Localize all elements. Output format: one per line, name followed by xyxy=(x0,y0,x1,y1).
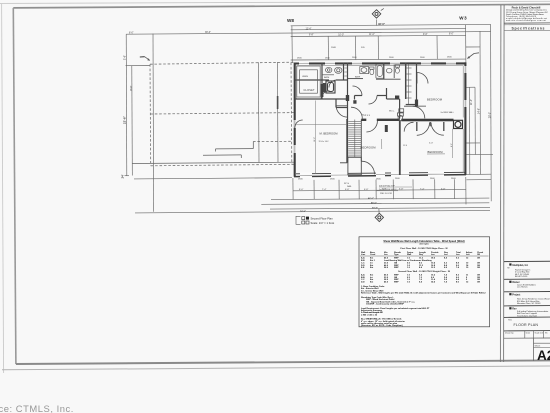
svg-text:2846: 2846 xyxy=(331,47,337,49)
svg-text:W8: W8 xyxy=(287,18,294,23)
svg-text:OK: OK xyxy=(477,282,481,284)
svg-text:6'-8": 6'-8" xyxy=(364,189,369,191)
svg-text:6'-8": 6'-8" xyxy=(441,188,446,190)
svg-text:14'-6": 14'-6" xyxy=(478,108,481,114)
svg-text:Project: Project xyxy=(512,293,520,296)
svg-text:Mountain Plant, SC 29148: Mountain Plant, SC 29148 xyxy=(517,302,541,305)
svg-text:(Structure, IRC as SSTD - Code: (Structure, IRC as SSTD - Code Compliant… xyxy=(361,324,403,327)
svg-text:D-D: D-D xyxy=(361,282,365,284)
svg-text:Drawn by: Drawn by xyxy=(505,333,513,335)
svg-text:24': 24' xyxy=(121,174,125,178)
svg-text:3'-6": 3'-6" xyxy=(123,55,127,60)
svg-text:BEDROOM: BEDROOM xyxy=(428,150,444,154)
svg-text:web site churchilldesignsc com: web site churchilldesignsc com net xyxy=(506,19,546,22)
svg-text:50'-8": 50'-8" xyxy=(372,207,378,209)
svg-text:Second Floor Wall - 10 SDC/TUO: Second Floor Wall - 10 SDC/TUO Weight Fl… xyxy=(398,270,451,273)
svg-text:36" H: 36" H xyxy=(344,183,350,185)
svg-text:9'-6": 9'-6" xyxy=(423,34,428,36)
svg-text:Shear Wall/Brace Wall Length C: Shear Wall/Brace Wall Length Calculation… xyxy=(383,240,464,243)
svg-text:BATH: BATH xyxy=(355,76,361,79)
svg-text:11'-0": 11'-0" xyxy=(369,34,375,36)
svg-text:5'-0": 5'-0" xyxy=(429,143,433,145)
svg-text:First Floor Wall - 10 SDC/TUO: First Floor Wall - 10 SDC/TUO Major Floo… xyxy=(400,247,448,250)
svg-text:74'-8": 74'-8" xyxy=(300,210,306,213)
svg-text:8'-0": 8'-0" xyxy=(129,32,134,34)
svg-text:BEDROOM: BEDROOM xyxy=(427,98,443,102)
svg-text:15'-8 x 14-2: 15'-8 x 14-2 xyxy=(319,141,329,143)
svg-text:11'-0: 11'-0 xyxy=(403,145,407,147)
svg-text:2ND FLOOR: 2ND FLOOR xyxy=(380,193,392,195)
svg-text:38'-6": 38'-6" xyxy=(205,32,211,34)
svg-text:CS-WSP - Continuously sheathed: CS-WSP - Continuously sheathed WSP xyxy=(366,303,404,306)
svg-text:HALL: HALL xyxy=(362,114,371,117)
svg-text:(110 mph): (110 mph) xyxy=(420,244,429,246)
svg-text:843-675-2051: 843-675-2051 xyxy=(515,276,528,278)
svg-text:46'-0": 46'-0" xyxy=(371,202,377,205)
svg-text:6'-8": 6'-8" xyxy=(345,189,350,191)
svg-text:8'-0": 8'-0" xyxy=(299,189,304,191)
svg-text:A2: A2 xyxy=(537,348,550,363)
svg-text:OK: OK xyxy=(477,258,481,260)
svg-text:14'-2": 14'-2" xyxy=(314,137,316,142)
svg-text:2x4 BRG WALL: 2x4 BRG WALL xyxy=(441,111,454,114)
svg-text:W3: W3 xyxy=(459,16,467,21)
svg-text:10'-0": 10'-0" xyxy=(338,34,344,36)
svg-text:46'-0": 46'-0" xyxy=(368,197,374,200)
svg-text:BATH: BATH xyxy=(324,76,330,79)
svg-text:28'-0": 28'-0" xyxy=(489,112,492,118)
svg-text:FLOOR PLAN: FLOOR PLAN xyxy=(514,323,539,327)
svg-text:Scale 1/4: Scale 1/4 xyxy=(535,333,544,335)
svg-text:M. BEDROOM: M. BEDROOM xyxy=(320,132,339,136)
svg-text:46'-0": 46'-0" xyxy=(378,22,386,26)
svg-text:Intelliplan, Inc: Intelliplan, Inc xyxy=(512,264,529,267)
svg-text:OK: OK xyxy=(477,267,481,269)
svg-text:W.I.C.: W.I.C. xyxy=(389,111,395,113)
svg-text:6'-2": 6'-2" xyxy=(451,143,453,147)
svg-text:Second Floor Plan: Second Floor Plan xyxy=(311,217,334,221)
svg-text:12'-4": 12'-4" xyxy=(306,29,312,31)
svg-text:Scale: 1/4" = 1 Foot: Scale: 1/4" = 1 Foot xyxy=(311,221,335,225)
svg-text:LLC Homes: LLC Homes xyxy=(517,287,528,289)
svg-text:ce: CTMLS, Inc.: ce: CTMLS, Inc. xyxy=(0,403,74,413)
svg-text:Reference Table - Wall lengths: Reference Table - Wall lengths per IRC t… xyxy=(361,292,486,295)
svg-text:CLOSET: CLOSET xyxy=(304,89,315,92)
svg-text:Ext: Ext xyxy=(370,281,374,284)
svg-text:22'-6": 22'-6" xyxy=(123,115,127,124)
svg-text:Sh: Sh xyxy=(545,333,547,335)
svg-text:BEDROOM: BEDROOM xyxy=(361,145,377,149)
svg-text:7'-4": 7'-4" xyxy=(420,188,425,190)
svg-text:WSP: WSP xyxy=(394,282,399,284)
svg-text:LINEN: LINEN xyxy=(302,76,308,78)
svg-text:8'-0": 8'-0" xyxy=(449,34,454,36)
svg-text:11'-4": 11'-4" xyxy=(470,99,473,105)
svg-text:a 860 x 0.45 = 32: a 860 x 0.45 = 32 xyxy=(361,313,378,316)
svg-text:6'-8": 6'-8" xyxy=(399,189,404,191)
svg-text:8'-0": 8'-0" xyxy=(129,85,133,90)
svg-text:WSP: WSP xyxy=(394,267,399,269)
svg-text:Ext: Ext xyxy=(370,266,374,269)
svg-text:6'-8": 6'-8" xyxy=(309,35,314,37)
svg-text:7'-4": 7'-4" xyxy=(322,189,327,191)
svg-text:Specifications: Specifications xyxy=(512,26,545,30)
